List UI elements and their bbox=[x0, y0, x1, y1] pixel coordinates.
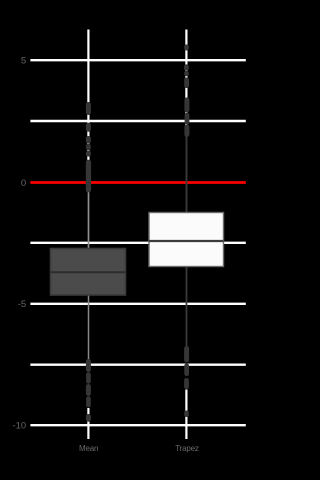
jitter points Mean cluster 2 bbox=[86, 123, 91, 132]
jitter points Mean cluster 5d bbox=[86, 396, 91, 407]
jitter points Trapez cluster 1 bbox=[184, 45, 189, 51]
jitter points Trapez cluster 6 bbox=[184, 378, 189, 389]
jitter points Trapez cluster 2b bbox=[184, 71, 189, 77]
svg-text:Trapez: Trapez bbox=[175, 444, 199, 453]
svg-text:-5: -5 bbox=[18, 299, 26, 310]
median Trapez bbox=[149, 240, 224, 242]
gridline y=5 bbox=[30, 59, 245, 61]
gridline y=-7.5 bbox=[30, 364, 245, 366]
jitter points Trapez cluster 4a bbox=[184, 98, 189, 113]
gridline y=-10 bbox=[30, 424, 245, 426]
jitter points Mean cluster 4 bbox=[86, 160, 91, 193]
box Mean bbox=[51, 249, 126, 296]
whisker Trapez lower bbox=[186, 266, 188, 346]
svg-text:-10: -10 bbox=[12, 421, 26, 432]
median Mean bbox=[51, 271, 126, 273]
whisker Mean lower bbox=[88, 295, 90, 360]
gridline y=-5 bbox=[30, 303, 245, 305]
jitter points Trapez cluster 2a bbox=[184, 64, 189, 70]
vertical line Mean upper segment bbox=[87, 30, 89, 192]
vertical line Trapez lower segment + tick bbox=[185, 390, 187, 440]
gridline y=2.5 bbox=[30, 120, 245, 122]
jitter points Mean cluster 3b bbox=[86, 144, 91, 151]
vertical line Mean lower segment + tick bbox=[87, 408, 89, 439]
jitter points Mean cluster 3a bbox=[86, 136, 91, 144]
jitter points Mean cluster 3c bbox=[86, 151, 91, 157]
jitter points Mean cluster 5c bbox=[86, 384, 91, 396]
jitter points Trapez cluster 4c bbox=[184, 125, 189, 138]
whisker Trapez upper bbox=[186, 136, 188, 213]
vertical line Trapez upper segment bbox=[185, 30, 187, 137]
box Trapez bbox=[149, 213, 224, 267]
svg-text:0: 0 bbox=[21, 178, 26, 189]
whisker Mean upper bbox=[88, 191, 90, 250]
jitter points Trapez cluster 5b bbox=[184, 364, 189, 377]
jitter points Trapez cluster 5a bbox=[184, 346, 189, 363]
svg-text:Mean: Mean bbox=[79, 444, 98, 453]
jitter points Mean cluster 5b bbox=[86, 372, 91, 384]
gridline y=-2.5 bbox=[30, 242, 245, 244]
svg-text:5: 5 bbox=[21, 56, 26, 67]
jitter points Mean cluster 1 bbox=[86, 102, 91, 115]
jitter points Trapez cluster 3 bbox=[184, 78, 189, 89]
jitter points Trapez cluster 4b bbox=[185, 113, 190, 125]
zero line (red) bbox=[30, 181, 245, 184]
jitter points Mean cluster 6 bbox=[86, 414, 91, 422]
jitter points Mean cluster 5a bbox=[86, 359, 91, 372]
jitter points Trapez cluster 7 bbox=[184, 411, 189, 418]
